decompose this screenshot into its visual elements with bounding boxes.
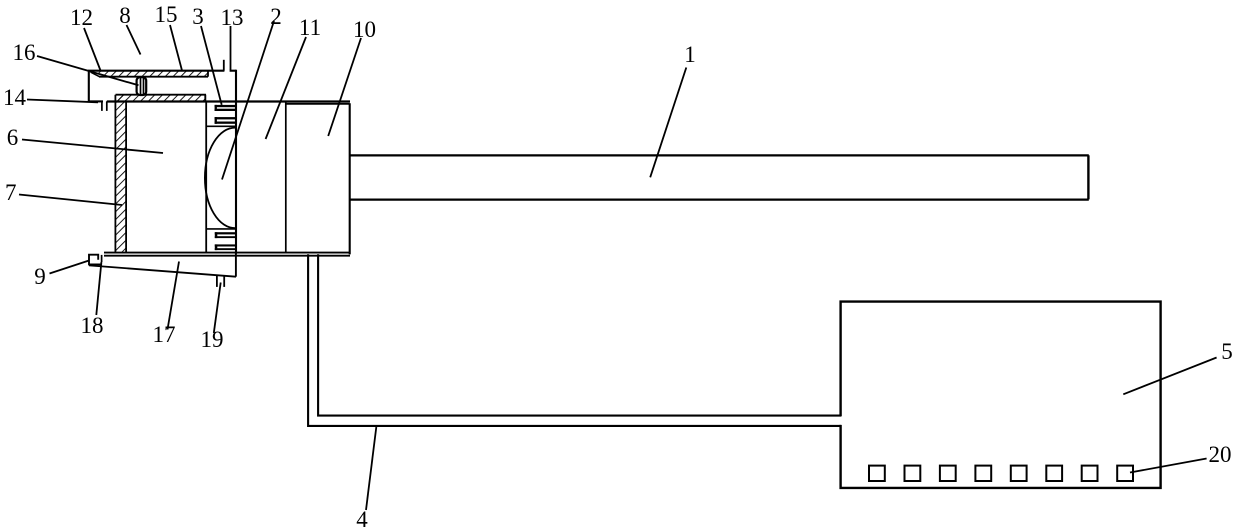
- svg-text:11: 11: [299, 15, 321, 40]
- svg-text:1: 1: [684, 42, 696, 67]
- svg-text:5: 5: [1221, 339, 1233, 364]
- svg-text:13: 13: [221, 5, 244, 30]
- svg-text:9: 9: [34, 264, 46, 289]
- svg-text:3: 3: [192, 4, 204, 29]
- svg-text:18: 18: [81, 313, 104, 338]
- svg-text:4: 4: [356, 507, 368, 532]
- svg-text:10: 10: [353, 17, 376, 42]
- svg-text:16: 16: [13, 40, 36, 65]
- svg-text:17: 17: [153, 322, 176, 347]
- svg-text:12: 12: [70, 5, 93, 30]
- svg-text:2: 2: [270, 4, 282, 29]
- svg-text:7: 7: [5, 180, 17, 205]
- svg-text:19: 19: [201, 327, 224, 352]
- svg-text:6: 6: [7, 125, 19, 150]
- svg-text:15: 15: [155, 2, 178, 27]
- svg-text:14: 14: [3, 85, 27, 110]
- svg-text:8: 8: [119, 3, 131, 28]
- svg-text:20: 20: [1209, 442, 1232, 467]
